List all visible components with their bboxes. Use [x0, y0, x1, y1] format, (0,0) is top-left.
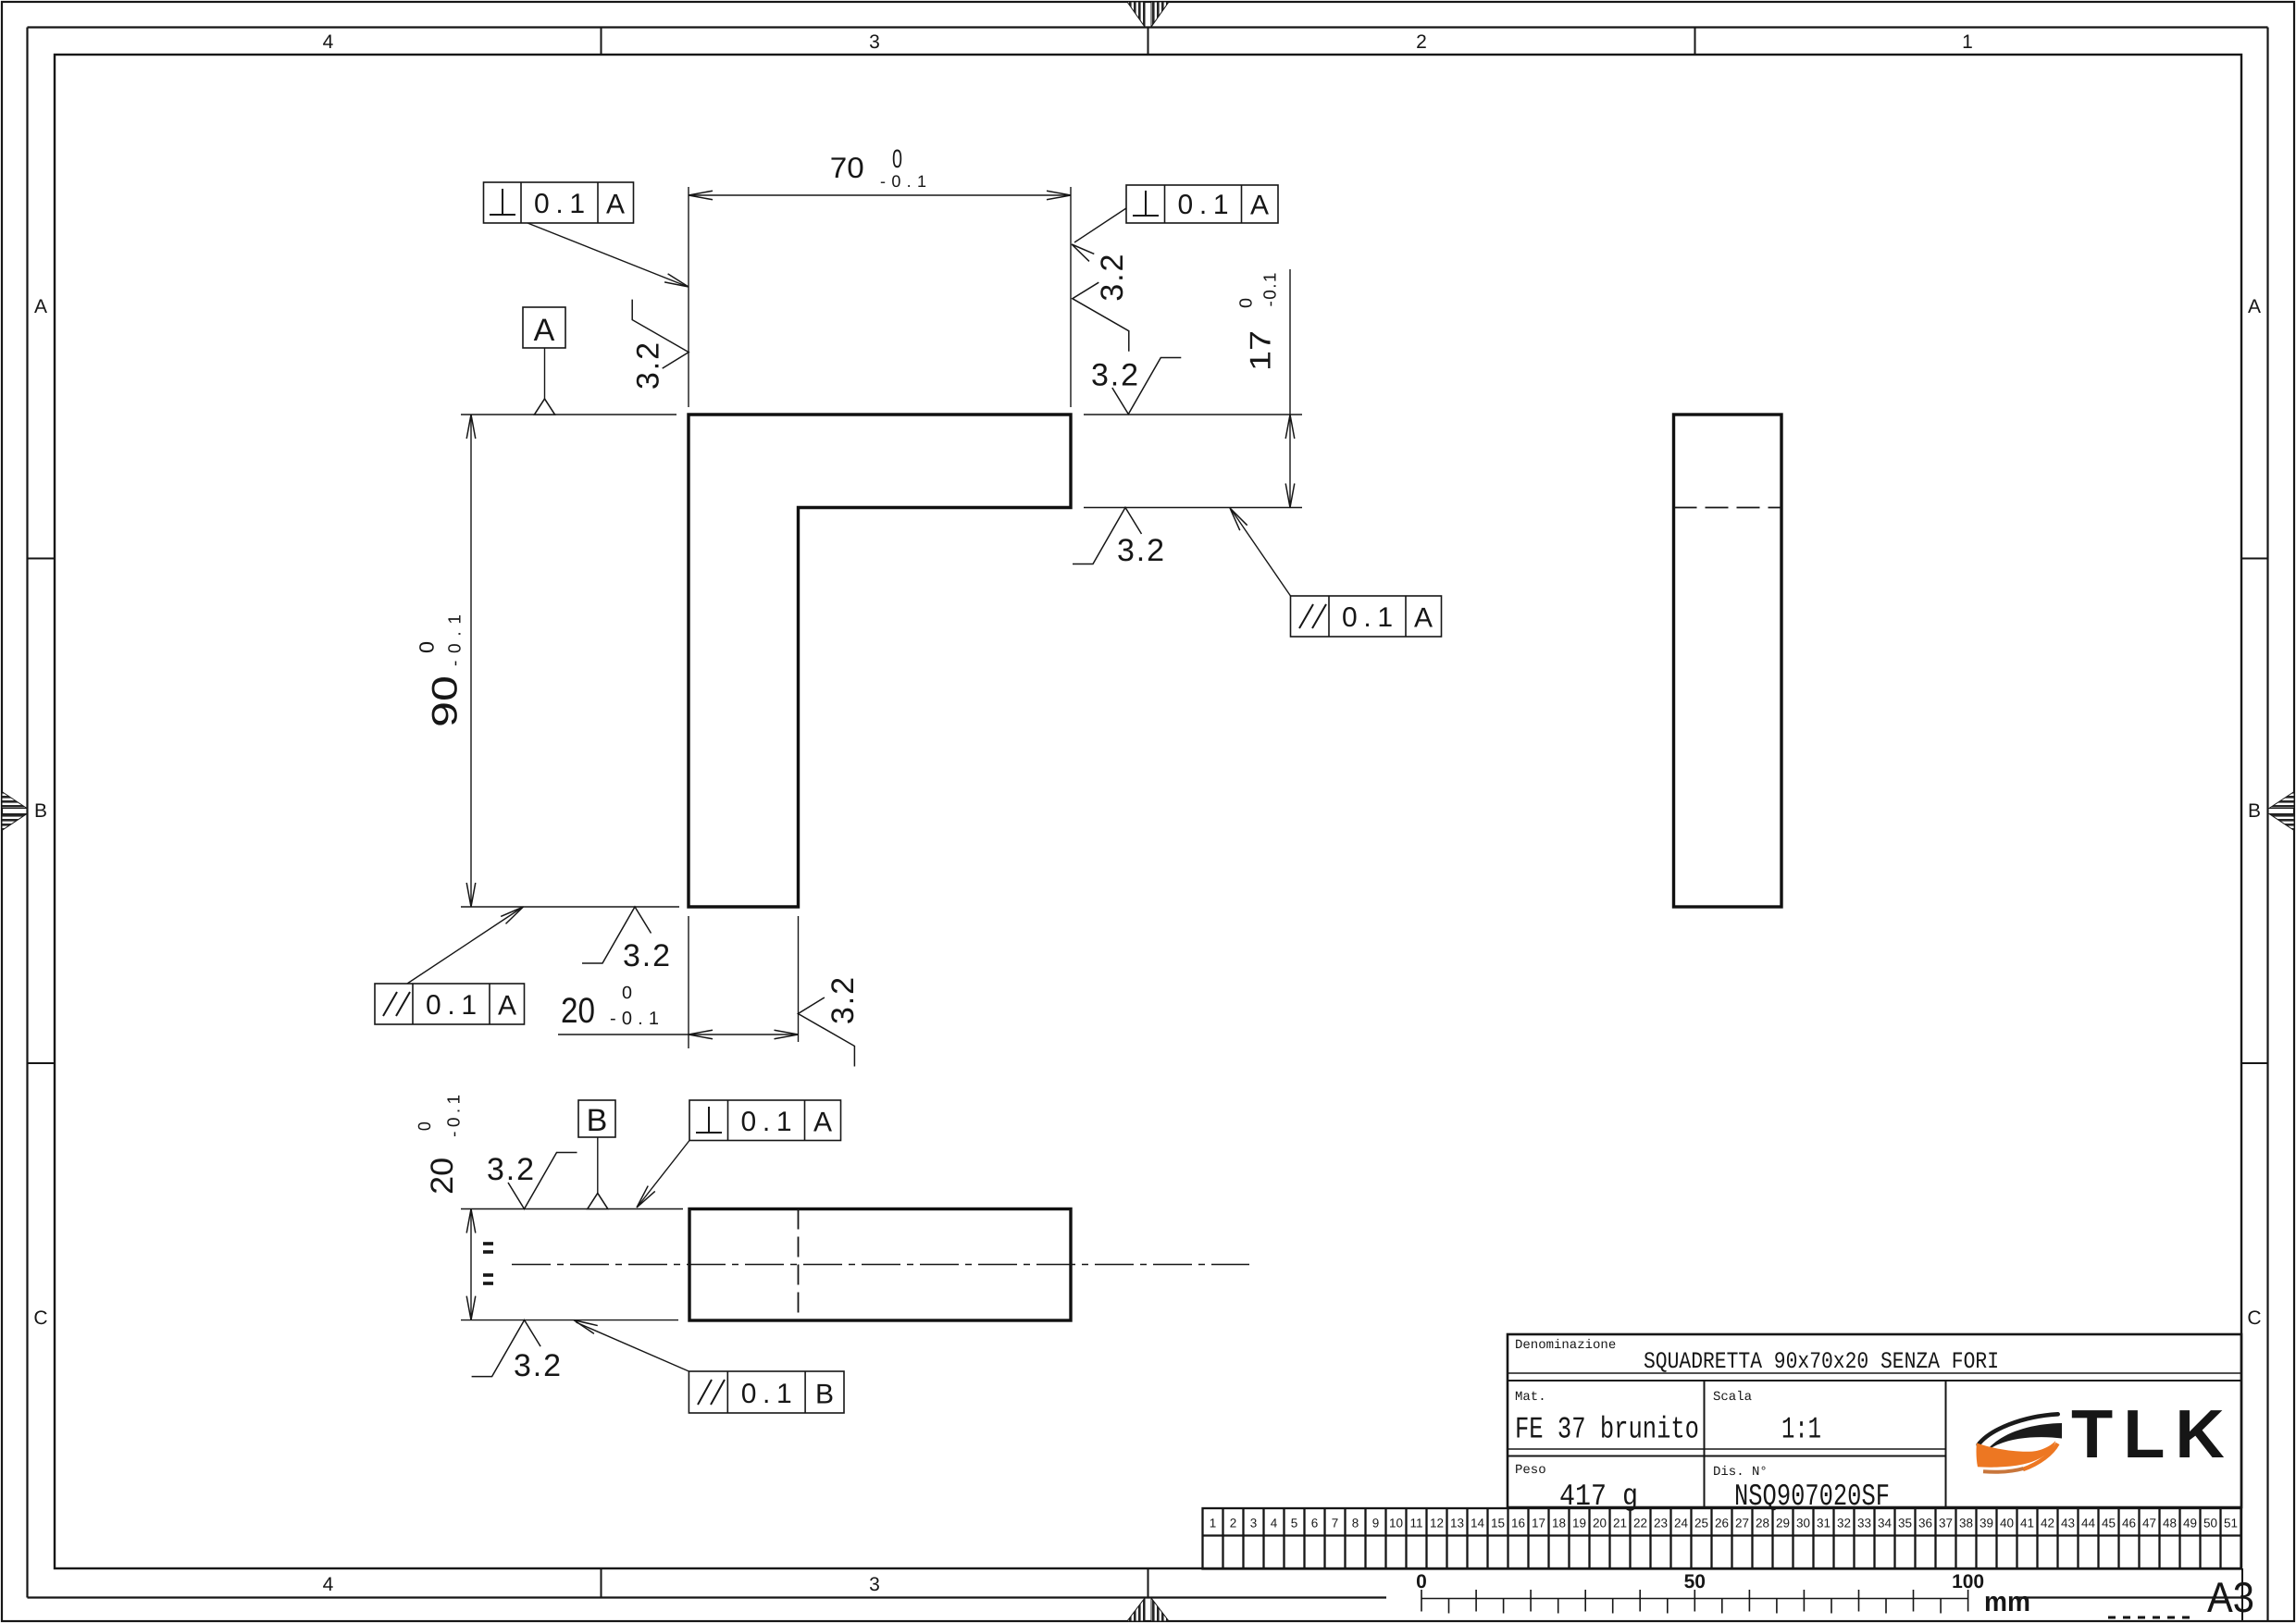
svg-text:2: 2 [1230, 1517, 1237, 1530]
svg-text:0.1: 0.1 [426, 990, 477, 1021]
leader parallelism B frame [577, 1322, 689, 1371]
svg-text:0: 0 [622, 984, 632, 1003]
datum A flag [523, 307, 565, 348]
surface finish 3.2 on right edge line [1073, 282, 1129, 352]
left centre mark [2, 792, 27, 809]
svg-text:51: 51 [2224, 1517, 2238, 1530]
svg-text:12: 12 [1430, 1517, 1444, 1530]
SIDE_VIEW [1674, 415, 1782, 907]
leader parallelism frame lower left [407, 909, 521, 985]
svg-text:46: 46 [2122, 1517, 2136, 1530]
surface finish 3.2 bottom line of bottom view [472, 1320, 541, 1377]
svg-text:1:1: 1:1 [1781, 1413, 1821, 1447]
svg-text:14: 14 [1471, 1517, 1485, 1530]
svg-text:0.1: 0.1 [1178, 190, 1229, 220]
dim 20 text (rotated) [416, 1095, 465, 1195]
svg-text:39: 39 [1980, 1517, 1993, 1530]
svg-text:3.2: 3.2 [514, 1348, 561, 1383]
svg-text:A: A [34, 296, 47, 317]
svg-text:20: 20 [561, 991, 595, 1031]
svg-text:70: 70 [830, 151, 864, 184]
svg-text:34: 34 [1878, 1517, 1893, 1530]
svg-text:A: A [606, 190, 625, 220]
svg-text:B: B [34, 800, 47, 822]
svg-text:50: 50 [1684, 1571, 1706, 1592]
svg-text:27: 27 [1735, 1517, 1749, 1530]
bottom band cell dividers [601, 1568, 602, 1598]
svg-text:0: 0 [415, 641, 438, 653]
right band cell dividers [2241, 558, 2268, 560]
svg-text:B: B [815, 1380, 834, 1410]
surface finish 3.2 on left edge line [632, 300, 689, 369]
svg-text:90: 90 [425, 675, 465, 727]
svg-text:B: B [587, 1103, 608, 1138]
svg-text:Denominazione: Denominazione [1515, 1338, 1616, 1353]
svg-text:11: 11 [1409, 1517, 1422, 1530]
svg-text:41: 41 [2020, 1517, 2034, 1530]
svg-text:29: 29 [1776, 1517, 1790, 1530]
dim 70 arrowheads [689, 191, 713, 200]
svg-text:28: 28 [1756, 1517, 1769, 1530]
surface finish 3.2 below step [1073, 508, 1142, 564]
side view outline [1674, 415, 1782, 907]
dim 90 arrowheads [466, 415, 476, 439]
svg-text:21: 21 [1613, 1517, 1627, 1530]
svg-text:6: 6 [1311, 1517, 1319, 1530]
front view L outline [689, 415, 1071, 907]
svg-text:3.2: 3.2 [487, 1152, 534, 1187]
svg-text:38: 38 [1959, 1517, 1973, 1530]
svg-text:0: 0 [1236, 298, 1256, 308]
NUMBER_STRIP [1203, 1508, 2241, 1569]
dim 20 arrowheads [466, 1209, 476, 1233]
svg-text:33: 33 [1857, 1517, 1871, 1530]
dim 70 extension lines [688, 187, 689, 407]
svg-text:31: 31 [1817, 1517, 1831, 1530]
svg-text:17: 17 [1532, 1517, 1545, 1530]
TLK logo swoosh [1977, 1414, 2062, 1471]
dim 20 line [558, 1034, 799, 1035]
svg-text:24: 24 [1674, 1517, 1689, 1530]
svg-text:10: 10 [1389, 1517, 1403, 1530]
dim 20 extension lines [688, 916, 689, 1048]
svg-text:1: 1 [1210, 1517, 1217, 1530]
fcf parallelism 0.1 B [689, 1371, 844, 1413]
A3 box divider [2241, 1568, 2243, 1621]
svg-text:44: 44 [2081, 1517, 2096, 1530]
symmetry marks [483, 1244, 493, 1283]
svg-text:3.2: 3.2 [623, 938, 670, 973]
dim 17 line [1289, 269, 1291, 508]
dim 70 line [689, 194, 1071, 196]
leader arrowheads [633, 1186, 655, 1210]
svg-text:35: 35 [1898, 1517, 1912, 1530]
bottom view hidden line [798, 1209, 800, 1321]
svg-text:3: 3 [869, 31, 880, 53]
svg-text:A: A [2248, 296, 2261, 317]
band frame right edge [2266, 28, 2268, 1622]
svg-text:SQUADRETTA 90x70x20 SENZA FORI: SQUADRETTA 90x70x20 SENZA FORI [1644, 1348, 1999, 1375]
band frame bottom edge segments [28, 1596, 1387, 1598]
svg-text:3.2: 3.2 [825, 977, 861, 1024]
svg-text:mm: mm [1984, 1587, 2030, 1617]
svg-text:B: B [2248, 800, 2261, 822]
svg-text:A: A [1250, 191, 1269, 221]
RULER [1416, 1571, 2254, 1621]
fcf perpendicularity 0.1 A bottom [689, 1100, 841, 1141]
svg-text:22: 22 [1633, 1517, 1647, 1530]
svg-text:0: 0 [1416, 1571, 1427, 1592]
svg-text:20: 20 [425, 1158, 460, 1195]
svg-text:8: 8 [1352, 1517, 1359, 1530]
dim 17 extension lines [1084, 414, 1302, 415]
svg-text:19: 19 [1572, 1517, 1586, 1530]
svg-text:48: 48 [2163, 1517, 2177, 1530]
svg-text:3: 3 [869, 1574, 880, 1595]
datum B flag [578, 1100, 615, 1137]
svg-text:Peso: Peso [1515, 1463, 1546, 1478]
svg-text:7: 7 [1332, 1517, 1339, 1530]
dim 90 text (rotated) [415, 614, 465, 727]
bottom view centreline [512, 1264, 1249, 1266]
svg-text:1: 1 [1962, 31, 1973, 53]
top band cell dividers [601, 28, 602, 56]
svg-text:2: 2 [1416, 31, 1427, 53]
svg-text:0.1: 0.1 [534, 189, 585, 219]
svg-text:3: 3 [1250, 1517, 1258, 1530]
top centre mark [1127, 2, 1145, 27]
surface finish 3.2 on leg line [798, 997, 854, 1067]
svg-text:5: 5 [1291, 1517, 1298, 1530]
band frame top edge [28, 26, 2268, 28]
svg-text:3.2: 3.2 [1117, 533, 1164, 568]
svg-text:50: 50 [2203, 1517, 2217, 1530]
svg-text:17: 17 [1243, 330, 1276, 371]
TITLE_BLOCK [1508, 1334, 2241, 1514]
svg-text:4: 4 [323, 1574, 334, 1595]
svg-text:16: 16 [1511, 1517, 1525, 1530]
svg-text:0.1: 0.1 [741, 1107, 792, 1137]
dim 20 arrowheads [689, 1030, 713, 1039]
leader perpendicularity frame [639, 1141, 690, 1206]
svg-text:9: 9 [1372, 1517, 1380, 1530]
svg-text:25: 25 [1694, 1517, 1708, 1530]
svg-text:42: 42 [2041, 1517, 2054, 1530]
surface finish 3.2 bottom edge [582, 907, 652, 963]
svg-text:47: 47 [2142, 1517, 2156, 1530]
bottom view outline [689, 1209, 1071, 1321]
svg-text:TLK: TLK [2071, 1395, 2235, 1472]
number strip [1203, 1508, 2241, 1569]
band frame left edge [26, 28, 28, 1598]
svg-text:13: 13 [1450, 1517, 1464, 1530]
svg-text:FE 37 brunito: FE 37 brunito [1515, 1413, 1699, 1447]
svg-text:3.2: 3.2 [1091, 358, 1138, 393]
svg-text:15: 15 [1491, 1517, 1505, 1530]
leader right perpendicularity frame [1074, 208, 1126, 242]
svg-text:Mat.: Mat. [1515, 1390, 1546, 1405]
svg-text:A: A [1414, 603, 1433, 634]
svg-text:43: 43 [2061, 1517, 2075, 1530]
svg-text:Scala: Scala [1713, 1390, 1752, 1405]
dim 17 text (rotated) [1236, 273, 1280, 372]
svg-text:4: 4 [323, 31, 334, 53]
svg-text:A: A [498, 991, 516, 1022]
svg-text:0: 0 [892, 144, 902, 173]
surface finish 3.2 top right horizontal [1112, 358, 1182, 415]
side view hidden line [1674, 507, 1782, 509]
svg-text:26: 26 [1715, 1517, 1729, 1530]
leader arrowheads [664, 274, 690, 291]
fcf perpendicularity 0.1 A top right [1126, 185, 1278, 223]
svg-text:32: 32 [1837, 1517, 1851, 1530]
svg-text:3.2: 3.2 [1095, 254, 1130, 302]
dim 90 bottom extension line [461, 906, 679, 908]
svg-text:37: 37 [1939, 1517, 1953, 1530]
right centre mark [2269, 792, 2294, 809]
svg-text:45: 45 [2102, 1517, 2116, 1530]
svg-text:30: 30 [1796, 1517, 1810, 1530]
surface finish 3.2 top line of bottom view [508, 1153, 577, 1209]
leader left perpendicularity frame [527, 223, 686, 286]
svg-text:40: 40 [2000, 1517, 2014, 1530]
dim 20 extension lines [461, 1208, 683, 1210]
svg-text:C: C [2247, 1307, 2261, 1329]
bottom centre mark [1127, 1598, 1145, 1621]
datum A extension line [461, 414, 676, 415]
leader parallelism frame right [1232, 511, 1291, 597]
svg-text:36: 36 [1918, 1517, 1932, 1530]
left band cell dividers [28, 558, 56, 560]
svg-text:0.1: 0.1 [741, 1379, 792, 1409]
margin ruler [1421, 1590, 1968, 1614]
dashes [2108, 1617, 2191, 1619]
svg-text:0.1: 0.1 [1342, 602, 1393, 633]
FRONT_VIEW [375, 144, 1442, 1067]
svg-text:A: A [813, 1108, 832, 1138]
svg-text:18: 18 [1552, 1517, 1566, 1530]
svg-text:23: 23 [1654, 1517, 1668, 1530]
title block frame [1508, 1334, 2241, 1507]
svg-text:C: C [33, 1307, 47, 1329]
fcf parallelism 0.1 A right [1291, 596, 1442, 637]
svg-text:49: 49 [2183, 1517, 2197, 1530]
svg-text:3.2: 3.2 [630, 342, 665, 390]
BOTTOM_VIEW [416, 1095, 1249, 1413]
fcf parallelism 0.1 A lower left [375, 984, 525, 1024]
svg-text:Dis. N°: Dis. N° [1713, 1465, 1768, 1480]
svg-text:100: 100 [1952, 1571, 1984, 1592]
svg-text:A3: A3 [2207, 1573, 2254, 1621]
dim 17 arrowheads [1285, 415, 1295, 439]
dim 90 line [470, 415, 472, 907]
svg-text:A: A [534, 313, 555, 348]
dim 20 line [470, 1209, 472, 1320]
svg-text:20: 20 [1593, 1517, 1607, 1530]
fcf perpendicularity 0.1 A top left [484, 182, 634, 223]
svg-text:4: 4 [1271, 1517, 1278, 1530]
svg-text:0: 0 [416, 1121, 435, 1131]
